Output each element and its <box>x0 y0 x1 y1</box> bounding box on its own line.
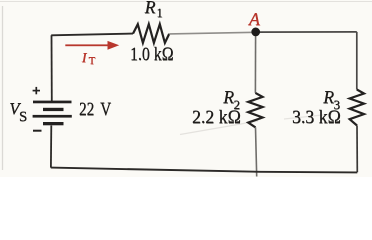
battery VS plate 3 (long) <box>33 115 72 118</box>
resistor R3 zigzag <box>350 90 364 126</box>
wire: right vertical top (corner to R3) <box>356 32 358 90</box>
wire: R1 to node A (lighter) <box>169 32 255 34</box>
battery plus sign <box>33 87 40 94</box>
scan edge line <box>2 6 4 170</box>
value 3.3 kOhm <box>292 108 341 127</box>
battery VS plate 4 (short) <box>43 122 64 125</box>
scan streak artifact 2 <box>284 114 332 119</box>
scan top edge line <box>0 1 372 3</box>
node label A (red) <box>249 10 260 28</box>
wire: top-left horizontal (battery + to R1) <box>51 34 133 36</box>
resistor R2 zigzag <box>248 93 262 128</box>
wire: left vertical top (corner to battery +) <box>51 35 53 101</box>
label VS <box>9 101 27 118</box>
battery minus sign <box>33 130 42 132</box>
label R2 <box>223 89 240 107</box>
label IT (red) <box>82 52 95 66</box>
wire: right vertical bottom (R3 to bottom wire) <box>356 126 358 173</box>
wire: bottom horizontal <box>51 168 358 173</box>
wire: branch node A down to R2 <box>254 32 256 93</box>
label R1 <box>145 0 163 17</box>
wire: R2 to bottom wire (with overshoot) <box>256 127 257 176</box>
resistor R1 zigzag <box>133 24 169 43</box>
label R3 <box>323 89 340 107</box>
node A junction dot <box>251 28 260 37</box>
wire: left vertical bottom (battery - to bottom wire) <box>50 126 52 168</box>
value 22 V <box>79 101 111 120</box>
battery VS plate 1 (long) <box>33 101 72 104</box>
wire: node A to top-right corner <box>256 31 357 33</box>
current IT arrow (red) <box>65 41 119 50</box>
scan streak artifact <box>180 121 258 135</box>
battery VS plate 2 (short) <box>43 108 64 111</box>
value 1.0 kOhm <box>130 45 174 64</box>
value 2.2 kOhm <box>192 108 241 127</box>
